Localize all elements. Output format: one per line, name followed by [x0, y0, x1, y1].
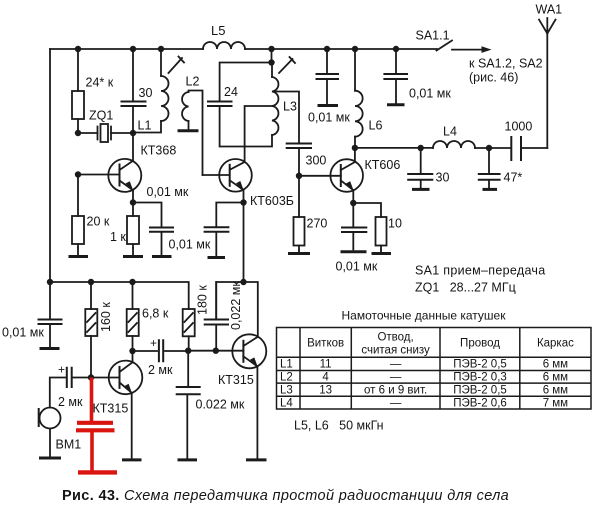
capacitor 47*	[479, 148, 523, 188]
wire base net KT315-2	[188, 350, 243, 352]
svg-text:1000: 1000	[505, 120, 533, 134]
node x133 y133	[130, 130, 136, 136]
capacitor 0.01uF at x327	[308, 49, 350, 125]
capacitor 0.01uF at x396	[384, 49, 451, 103]
svg-text:L1: L1	[280, 359, 293, 371]
svg-text:0,01 мк: 0,01 мк	[409, 87, 451, 101]
svg-text:L2: L2	[280, 372, 293, 384]
node 180k bottom	[185, 348, 191, 354]
svg-text:270: 270	[307, 217, 328, 231]
svg-text:+: +	[58, 363, 65, 377]
ground cap emitter KT368	[152, 255, 172, 258]
ground 10	[372, 252, 392, 255]
svg-text:Витков: Витков	[307, 338, 344, 350]
node base KT606	[296, 173, 302, 179]
node top bus at x133	[130, 46, 136, 52]
wire L3 tap to 300 cap	[273, 92, 299, 144]
svg-text:L2: L2	[186, 75, 200, 89]
svg-text:(рис. 46): (рис. 46)	[469, 71, 518, 85]
svg-text:7 мм: 7 мм	[543, 397, 568, 409]
svg-text:КТ606: КТ606	[365, 158, 401, 172]
node emitter KT368	[130, 199, 136, 205]
wire L3 tap to KT603 collector	[245, 106, 272, 162]
resistor 24*k	[72, 49, 114, 133]
svg-text:L4: L4	[280, 397, 293, 409]
svg-text:300: 300	[306, 154, 327, 168]
node base KT368	[75, 171, 81, 177]
svg-text:к SA1.2, SA2: к SA1.2, SA2	[469, 57, 543, 71]
svg-text:ПЭВ-2 0,5: ПЭВ-2 0,5	[453, 384, 507, 396]
svg-text:—: —	[390, 359, 402, 371]
svg-text:13: 13	[319, 384, 332, 396]
node x489	[486, 145, 492, 151]
transistor KT315-2	[218, 334, 266, 458]
inductor L5	[203, 23, 245, 49]
microphone BM1	[39, 408, 82, 458]
trimmer core mark L3	[279, 57, 295, 73]
svg-text:SA1.1: SA1.1	[416, 29, 450, 43]
capacitor 0.022uF coupling (vertical)	[205, 281, 243, 351]
antenna WA1	[536, 3, 563, 34]
svg-text:—: —	[390, 397, 402, 409]
capacitor 2uF mic coupling	[50, 363, 91, 410]
wire L4 to 1000 cap	[475, 147, 511, 149]
node 160k bottom / base KT315-1	[88, 374, 94, 380]
svg-text:ПЭВ-2 0,3: ПЭВ-2 0,3	[453, 372, 507, 384]
ground BM1	[39, 457, 61, 460]
transistor KT368	[78, 133, 176, 203]
node emitter KT606	[350, 200, 356, 206]
node tank2 top	[268, 59, 274, 65]
node mid bus at x91	[88, 279, 94, 285]
svg-text:L3: L3	[283, 100, 297, 114]
node 6.8k bottom / collector KT315-1	[129, 348, 135, 354]
node top bus at x161	[158, 46, 164, 52]
ground 0.022uF	[178, 458, 198, 461]
capacitor 0.01uF lower-left	[2, 282, 62, 347]
svg-text:1 к: 1 к	[110, 230, 126, 244]
wire mid bus right segment (KT603 emitter node)	[216, 282, 258, 337]
svg-text:ZQ1 28...27 МГц: ZQ1 28...27 МГц	[415, 281, 516, 295]
svg-text:ZQ1: ZQ1	[89, 109, 113, 123]
inductor L2	[182, 75, 202, 176]
node mid bus at left rail	[47, 279, 53, 285]
node collector KT606 / L6 bottom	[352, 145, 358, 151]
svg-text:+: +	[150, 336, 157, 350]
svg-text:30: 30	[139, 86, 153, 100]
resistor 20k	[72, 175, 110, 249]
svg-text:—: —	[390, 372, 402, 384]
ground cap emitter KT603B	[208, 256, 226, 259]
ground L2	[178, 129, 199, 132]
svg-text:24: 24	[224, 85, 238, 99]
ground emitter KT315-2	[246, 458, 267, 461]
wire emitter KT603B down to audio node	[243, 203, 245, 283]
svg-text:Провод: Провод	[460, 338, 500, 350]
ground 270	[288, 252, 310, 255]
svg-text:L6: L6	[369, 119, 383, 133]
svg-text:КТ368: КТ368	[141, 144, 177, 158]
wire top supply bus left part	[50, 48, 203, 50]
svg-text:КТ315: КТ315	[93, 402, 129, 416]
svg-text:0,01 мк: 0,01 мк	[2, 326, 44, 340]
ground 1k	[132, 248, 134, 255]
svg-text:6 мм: 6 мм	[543, 372, 568, 384]
svg-text:6 мм: 6 мм	[543, 384, 568, 396]
ground cap x396	[387, 103, 405, 106]
capacitor 24 (tank2)	[208, 85, 238, 106]
svg-text:0.022 мк: 0.022 мк	[196, 398, 245, 412]
wire mid bus left segment	[50, 282, 189, 309]
svg-text:ВМ1: ВМ1	[56, 438, 82, 452]
wire antenna feed	[546, 34, 548, 149]
resistor 1k	[110, 203, 139, 249]
svg-text:Рис. 43. Схема передатчика про: Рис. 43. Схема передатчика простой радио…	[62, 488, 509, 504]
svg-text:160 к: 160 к	[99, 302, 113, 332]
capacitor 0.01uF emitter KT368	[133, 185, 189, 255]
svg-text:SA1 прием–передача: SA1 прием–передача	[415, 264, 546, 278]
resistor 10	[353, 203, 402, 250]
trimmer core mark L1	[169, 57, 185, 74]
resistor 160k	[85, 282, 113, 378]
node top bus at x355	[352, 46, 358, 52]
node x78 y133	[75, 130, 81, 136]
node top bus at x78	[75, 46, 81, 52]
svg-text:L4: L4	[443, 125, 457, 139]
svg-text:от 6 и 9 вит.: от 6 и 9 вит.	[364, 384, 427, 396]
svg-text:180 к: 180 к	[196, 285, 210, 315]
svg-text:КТ315: КТ315	[218, 373, 254, 387]
capacitor 0.01uF emitter KT606	[336, 203, 378, 274]
capacitor 30 output	[408, 148, 449, 188]
coil data table	[277, 328, 592, 410]
capacitor 300	[287, 143, 327, 176]
ground cap lower-left	[40, 347, 60, 350]
tank2 loop wire	[220, 49, 272, 147]
inductor L1	[133, 49, 169, 133]
resistor 180k	[183, 285, 210, 351]
capacitor 1000	[505, 120, 548, 161]
node x420.7	[418, 145, 424, 151]
crystal ZQ1	[78, 109, 133, 143]
svg-text:6,8 к: 6,8 к	[142, 307, 169, 321]
ground 20k	[77, 248, 79, 255]
ground emitter KT315-1	[122, 458, 142, 461]
inductor L3 with taps	[272, 63, 297, 136]
node top bus at x396	[393, 46, 399, 52]
node mid bus at x132.5	[129, 279, 135, 285]
svg-text:L5: L5	[211, 23, 225, 38]
svg-text:0,01 мк: 0,01 мк	[308, 111, 350, 125]
svg-text:КТ603Б: КТ603Б	[250, 194, 294, 208]
ground cap emitter KT606	[341, 250, 367, 253]
svg-text:ПЭВ-2 0,6: ПЭВ-2 0,6	[453, 397, 507, 409]
svg-text:2 мк: 2 мк	[148, 363, 173, 377]
svg-text:10: 10	[388, 217, 402, 231]
svg-text:считая снизу: считая снизу	[361, 345, 430, 357]
resistor 270	[294, 176, 328, 250]
wire top supply bus right part	[245, 48, 437, 50]
svg-text:0,022 мк: 0,022 мк	[229, 281, 243, 330]
svg-text:ПЭВ-2 0,5: ПЭВ-2 0,5	[453, 359, 507, 371]
transistor KT603B	[203, 159, 294, 208]
capacitor 0.01uF emitter KT603B	[169, 203, 244, 257]
svg-text:Намоточные данные катушек: Намоточные данные катушек	[342, 309, 507, 323]
svg-text:30: 30	[436, 171, 450, 185]
arrow to SA1.2	[452, 46, 543, 84]
ground 47*	[483, 188, 498, 191]
svg-text:0,01 мк: 0,01 мк	[147, 185, 189, 199]
transistor KT606	[299, 148, 400, 203]
svg-text:0,01 мк: 0,01 мк	[336, 260, 378, 274]
node emitter net at x243.5	[240, 279, 246, 285]
svg-text:L3: L3	[280, 384, 293, 396]
node base net second KT315 at cap	[213, 348, 219, 354]
node top bus at x271.5	[268, 46, 274, 52]
node top bus at x327	[324, 46, 330, 52]
svg-text:Каркас: Каркас	[537, 338, 574, 350]
svg-text:24* к: 24* к	[86, 76, 114, 90]
switch SA1.1	[416, 29, 453, 51]
ground 30 output	[412, 188, 430, 191]
node emitter KT603B	[240, 199, 246, 205]
svg-text:11: 11	[320, 359, 332, 371]
svg-text:47*: 47*	[504, 171, 523, 185]
resistor 6.8k	[127, 282, 169, 351]
svg-text:0,01 мк: 0,01 мк	[169, 238, 211, 252]
svg-text:6 мм: 6 мм	[543, 359, 568, 371]
capacitor 2uF interstage	[133, 336, 189, 377]
inductor L6	[355, 49, 382, 148]
ground cap x327	[318, 104, 339, 107]
transistor KT315-1	[91, 351, 142, 458]
svg-text:4: 4	[322, 372, 329, 384]
svg-text:Отвод,: Отвод,	[377, 332, 413, 344]
red pencil capacitor to ground	[76, 378, 117, 473]
wire collector KT606 to output	[355, 147, 433, 149]
capacitor 0.022uF to ground	[177, 351, 245, 458]
wire left rail	[49, 49, 51, 282]
svg-text:2 мк: 2 мк	[58, 395, 83, 409]
svg-text:L1: L1	[138, 119, 152, 133]
svg-text:WA1: WA1	[536, 3, 563, 17]
capacitor 30 (tank1)	[122, 49, 153, 133]
svg-text:L5, L6 50 мкГн: L5, L6 50 мкГн	[294, 419, 384, 433]
svg-text:20 к: 20 к	[87, 215, 110, 229]
inductor L4	[433, 125, 475, 149]
